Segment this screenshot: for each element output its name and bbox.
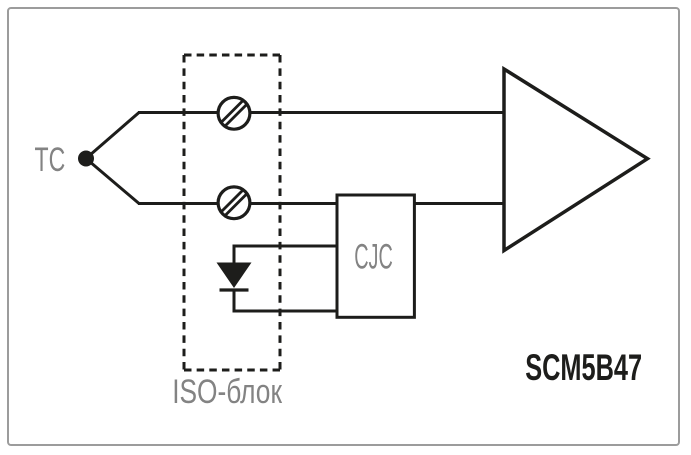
svg-text:ISO-блок: ISO-блок bbox=[172, 373, 282, 411]
svg-text:CJC: CJC bbox=[354, 238, 393, 277]
svg-text:TC: TC bbox=[35, 140, 66, 179]
svg-text:SCM5B47: SCM5B47 bbox=[525, 346, 642, 388]
